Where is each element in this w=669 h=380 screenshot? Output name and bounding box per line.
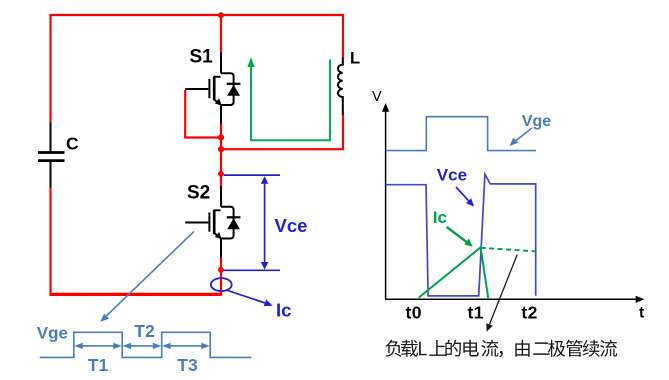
wire center leg bottom — [220, 258, 222, 296]
wire left leg upper — [49, 14, 51, 123]
wire left leg lower — [49, 187, 51, 296]
svg-text:V: V — [372, 89, 382, 105]
transistor S1 (IGBT with diode) — [185, 53, 240, 124]
node DC bus top junction — [218, 12, 224, 18]
chart Ic pointer arrow — [447, 227, 468, 243]
inductor L1 — [338, 58, 343, 115]
svg-text:Vce: Vce — [437, 166, 467, 185]
T1 span arrow — [74, 343, 210, 349]
Vce measurement annotation — [224, 175, 280, 270]
svg-text:C: C — [66, 134, 79, 154]
chart Vge waveform — [387, 117, 536, 151]
node midpoint to load L junction — [218, 146, 224, 152]
svg-text:Ic: Ic — [433, 208, 447, 227]
svg-text:T3: T3 — [177, 355, 198, 375]
svg-text:Ic: Ic — [276, 300, 291, 321]
chart Vce waveform — [386, 174, 536, 296]
green commutation loop arrow — [247, 57, 330, 140]
freewheel note arrow — [488, 255, 517, 328]
node S2 collector / Vce top junction — [218, 171, 224, 177]
chart V axis — [385, 108, 387, 299]
wire top rail — [50, 14, 343, 16]
gate annotation arrow to waveform — [104, 231, 194, 318]
svg-text:S1: S1 — [190, 47, 214, 68]
Vge gate waveform — [40, 332, 252, 357]
svg-text:t0: t0 — [406, 302, 422, 322]
svg-text:t2: t2 — [521, 302, 537, 322]
svg-text:Vge: Vge — [522, 113, 551, 130]
chart Vge pointer arrow — [513, 128, 532, 143]
chart Ic dashed freewheel line — [481, 248, 537, 252]
wire bottom rail — [50, 293, 222, 296]
wire center leg mid — [220, 123, 222, 190]
node S1 emitter / gate-loop junction — [218, 134, 224, 140]
svg-text:T1: T1 — [88, 355, 109, 375]
node S2 emitter / Vce bottom junction — [218, 267, 224, 273]
svg-text:t1: t1 — [468, 302, 484, 322]
svg-text:T2: T2 — [134, 321, 155, 341]
svg-text:t: t — [639, 305, 644, 322]
svg-text:Vge: Vge — [37, 324, 68, 343]
T3 span arrow — [165, 345, 206, 347]
note text: 负载L上的电流，由二极管续流 — [386, 340, 618, 358]
current probe ellipse — [211, 278, 232, 291]
Ic arrow — [228, 291, 267, 304]
wire center leg top — [220, 14, 222, 54]
T2 span arrow — [126, 345, 158, 347]
chart t axis — [385, 298, 638, 300]
chart Vce pointer arrow — [456, 187, 471, 203]
svg-text:Vce: Vce — [275, 215, 308, 236]
transistor S2 (IGBT with diode) — [185, 186, 240, 257]
chart Ic waveform — [419, 247, 489, 299]
wire S1 gate loop — [185, 90, 219, 138]
capacitor C1 leads — [50, 123, 52, 188]
svg-text:S2: S2 — [187, 183, 210, 204]
svg-text:L: L — [350, 50, 360, 68]
capacitor C1 plates — [38, 153, 65, 161]
wire mid horizontal — [221, 148, 344, 150]
wire right leg lower — [342, 114, 344, 151]
wire right leg upper — [342, 14, 344, 59]
